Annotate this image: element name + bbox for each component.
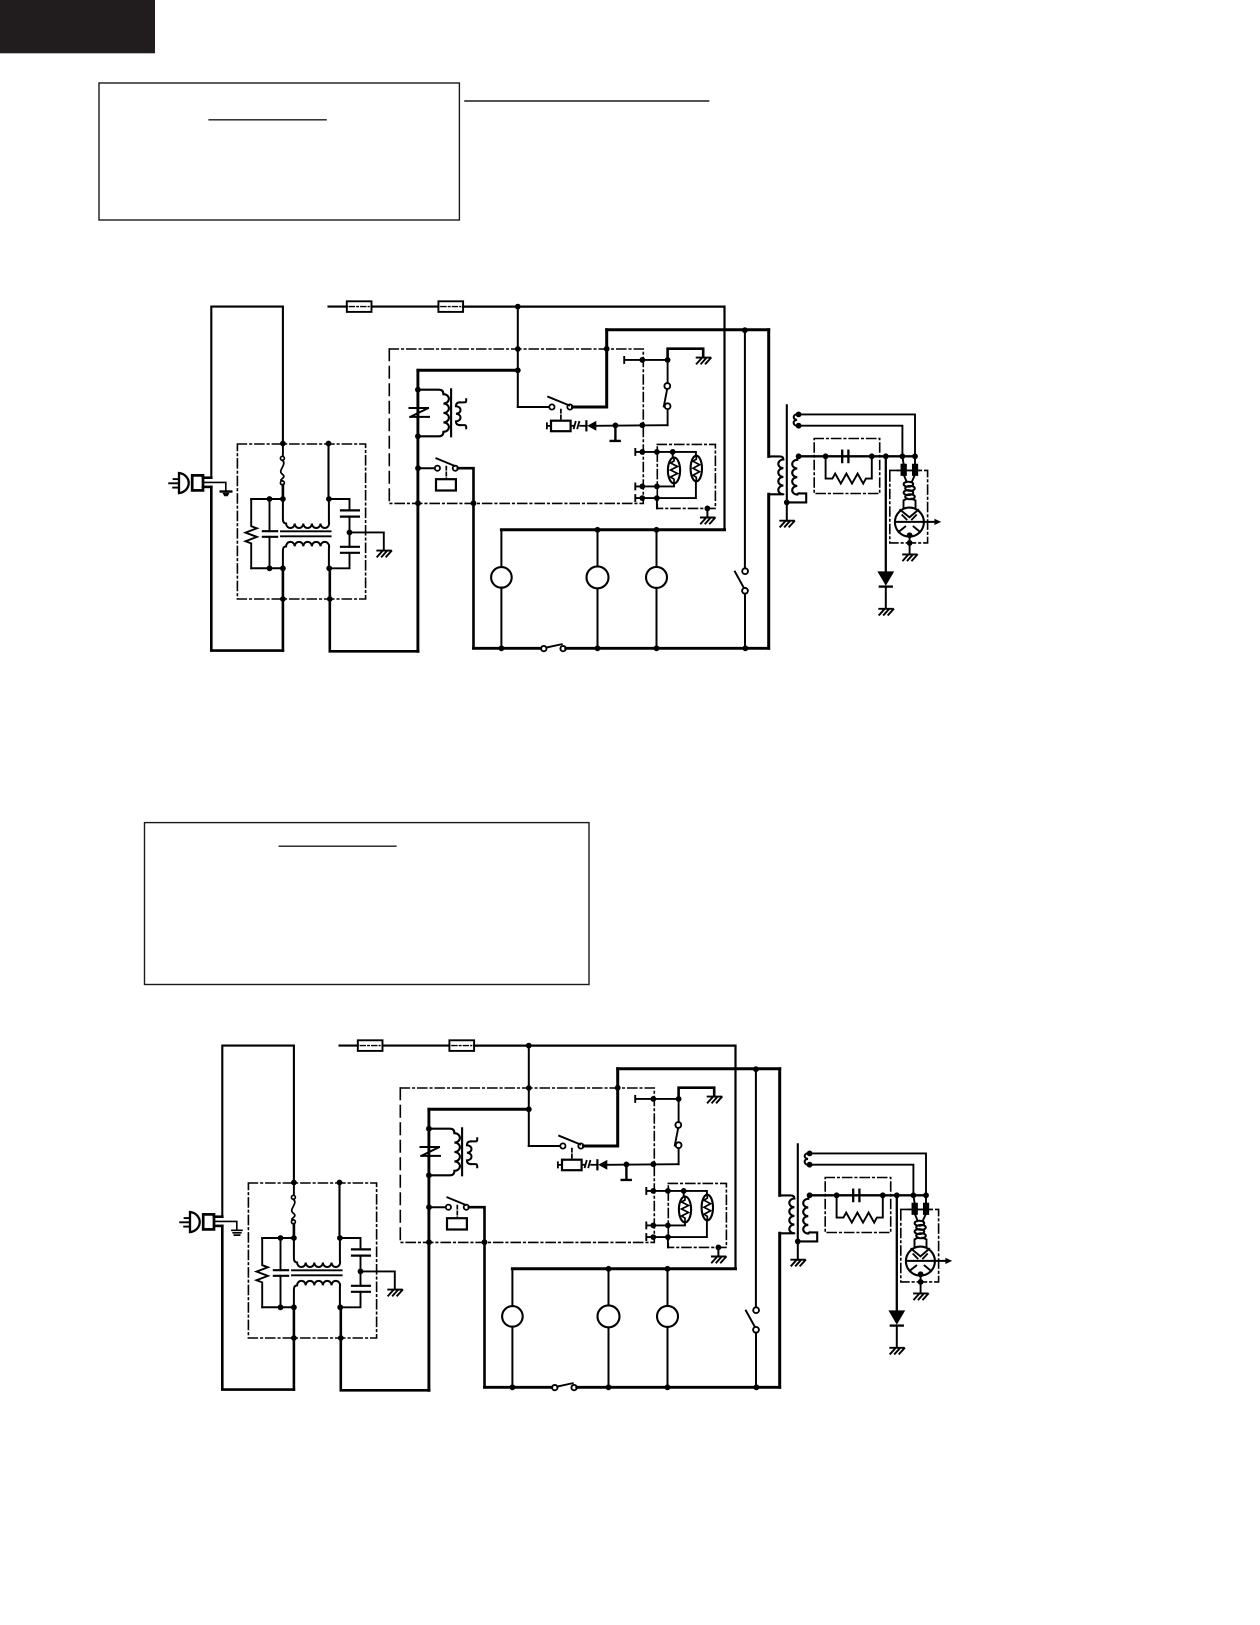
- stub heater row3 to box edge: [656, 498, 658, 508]
- transformer T3 (high voltage) primary winding: [769, 456, 784, 494]
- AC plug P1 body: [179, 473, 189, 493]
- stub heater row3 to box edge: [667, 1237, 669, 1247]
- wire LVT leg to relay RY2 and bottom: [416, 436, 419, 651]
- transformer T2 (low voltage) primary winding: [429, 1129, 460, 1176]
- node dot LVT feed branch: [526, 1106, 532, 1112]
- node dot on control box edge: [515, 346, 521, 352]
- chassis ground at noise filter: [377, 551, 391, 557]
- node dot relay RY2 input: [415, 465, 421, 471]
- HV capacitor C4: [841, 451, 843, 462]
- wire diode to monitor switch leg: [596, 424, 667, 427]
- node dots heater row 2: [639, 484, 645, 490]
- resistor R1 (bleeder, vertical zigzag): [246, 499, 257, 568]
- door sensing switch SW1: [742, 568, 748, 574]
- magnetron MG1 filament terminals (plate pairs): [902, 456, 915, 464]
- wire noise filter output left (neutral) to bottom run: [293, 1307, 296, 1389]
- node dot on controller dashed boundary: [639, 422, 645, 428]
- node dots noise filter bottom edge: [280, 596, 286, 602]
- schematic 2 (lower oven circuit): [180, 1040, 952, 1390]
- wire second riser inside noise filter: [327, 444, 329, 500]
- transformer T2 secondary winding with leads: [467, 1141, 472, 1164]
- node dots noise filter bottom row: [278, 1304, 284, 1310]
- transformer T3 filament winding: [794, 414, 799, 426]
- wire diode to monitor switch leg: [607, 1163, 678, 1166]
- wire HV primary return to bottom run (heavy): [767, 494, 770, 648]
- node dot heater box ground: [716, 1245, 722, 1251]
- wire plug earth lead: [214, 1221, 237, 1230]
- relay RY2 contact: [420, 467, 435, 469]
- wire relay RY2 output down to bottom run: [458, 468, 474, 648]
- wire noise filter output right down to bottom run: [330, 568, 418, 651]
- note box 1 title underline: [209, 119, 326, 121]
- wire filament lead upper: [799, 414, 915, 456]
- transformer T3 secondary winding: [803, 1195, 810, 1233]
- thermal cutout TCO1: [347, 301, 372, 312]
- wire relay RY2 output down to bottom run: [469, 1207, 485, 1387]
- relay RY1 actuator dashed link: [571, 1149, 573, 1160]
- wire HV transformer primary feed (heavy): [767, 330, 770, 457]
- bleeder resistor R2 (parallel): [837, 1195, 883, 1222]
- AC plug P1 body: [190, 1212, 200, 1232]
- node dot varistor top: [415, 387, 421, 393]
- wire plug phase lead: [214, 1215, 222, 1218]
- varistor ZNR1 across LVT primary: [410, 408, 430, 417]
- heater unit boundary box (dash-dot): [668, 1183, 726, 1247]
- wire plug neutral lead: [203, 486, 211, 489]
- node dot heater box ground: [705, 506, 711, 512]
- node dot relay RY2 input: [426, 1204, 432, 1210]
- wire door sensing switch branch: [744, 330, 746, 568]
- monitor switch SW2 (vertical): [675, 1122, 681, 1128]
- inductor T1 bottom winding (choke): [294, 1281, 340, 1307]
- stub heater row1 to H1: [672, 452, 674, 458]
- heater H1 element: [679, 1197, 691, 1223]
- wire LVT primary feed (heavy): [418, 369, 518, 372]
- wire up to monitor switch: [667, 409, 669, 425]
- node dots control box bottom edge crossings: [426, 1239, 432, 1245]
- capacitor C1 (across line, horizontal plates): [263, 530, 277, 532]
- node dots noise filter top row: [278, 1235, 284, 1241]
- wire main feed run to HV transformer (heavy): [618, 1067, 780, 1070]
- thermal cutout TCO2: [438, 301, 463, 312]
- thermal cutout TCO1: [358, 1040, 383, 1051]
- wire HV line from secondary to magnetron: [810, 1194, 926, 1196]
- heater row 1 wire with terminal tick: [635, 449, 672, 455]
- HV diode D2 to chassis: [885, 456, 887, 571]
- wire HV secondary cold end to core and chassis: [787, 493, 806, 502]
- node dots filament winding terminals: [796, 412, 802, 418]
- magnetron output antenna with arrow: [907, 1260, 946, 1262]
- inductor T1 bottom winding (choke): [283, 542, 329, 568]
- wire noise filter output left (neutral) to bottom run: [282, 568, 285, 650]
- varistor ZNR1 across LVT primary: [421, 1147, 441, 1156]
- transformer T2 core: [461, 1128, 463, 1175]
- wire noise filter bottom row: [262, 1306, 294, 1308]
- fan motor M1: [500, 530, 502, 567]
- node dots filament winding terminals: [807, 1151, 813, 1157]
- capacitor C3 (line to ground): [341, 546, 359, 548]
- wire filament lead lower: [799, 426, 903, 457]
- wire bottom run (heavy) with motor taps: [474, 647, 542, 650]
- node dots magnetron cathode return: [907, 532, 913, 538]
- chassis ground at heater box: [717, 1248, 719, 1257]
- wire noise filter top row: [251, 498, 283, 500]
- heater H2 element: [691, 456, 702, 482]
- choke T1 core lines: [292, 1269, 342, 1271]
- noise filter NF1 boundary box (dash-dot): [237, 444, 365, 599]
- heading underline right of note box 1: [465, 100, 709, 102]
- relay RY2 actuator dashed link: [456, 1206, 458, 1219]
- plug cord connector: [203, 1214, 214, 1229]
- wire top run to right corner, down to motor bus: [474, 1046, 735, 1269]
- node dot top run at controller branch: [526, 1043, 532, 1049]
- note box 2 title underline: [279, 845, 396, 847]
- node dot capacitor midpoint: [358, 1269, 364, 1275]
- node dots motor bus: [595, 527, 601, 533]
- transformer T2 core: [450, 389, 452, 436]
- choke T1 core lines: [281, 530, 331, 532]
- node dot door switch branch: [742, 327, 748, 333]
- node dot core ground junction: [784, 500, 790, 506]
- node dots heater row 3: [639, 495, 645, 501]
- wire motor bus (heavy): [501, 528, 724, 531]
- node dots noise filter bottom row: [267, 565, 273, 571]
- wire monitor switch top row: [635, 1096, 678, 1102]
- wire filament lead lower: [810, 1165, 914, 1196]
- wire HV transformer primary feed (heavy): [778, 1069, 781, 1196]
- stub heater row1 to H1: [683, 1191, 685, 1197]
- wire monitor switch to chassis: [679, 1088, 715, 1099]
- transformer T2 (low voltage) primary winding: [418, 390, 449, 437]
- transformer T2 secondary winding with leads: [456, 402, 461, 425]
- diode D1 (flyback, pointing left): [596, 1160, 598, 1169]
- node dot with terminal stub: [624, 1162, 630, 1168]
- node dot capacitor midpoint: [347, 530, 353, 536]
- node dots on HV line: [796, 453, 802, 459]
- HV capacitor unit boundary box (dash-dot): [814, 439, 880, 494]
- wire door switch to bottom run: [744, 594, 746, 649]
- fuse F1 (line fuse inside noise filter): [293, 1185, 295, 1195]
- chassis ground at HV diode: [890, 1348, 904, 1354]
- HV diode D2 to chassis: [896, 1195, 898, 1310]
- node dot varistor bottom: [415, 433, 421, 439]
- plug prong 2 (earth pin): [180, 1221, 190, 1223]
- magnetron internal vanes: [911, 1249, 929, 1256]
- wire top feed run with thermal cutouts: [340, 1045, 358, 1047]
- wire top feed run with thermal cutouts: [329, 306, 347, 308]
- wire LVT primary left leg: [427, 1109, 430, 1175]
- wire plug neutral lead: [214, 1225, 222, 1228]
- wire HV primary return to bottom run (heavy): [778, 1233, 781, 1387]
- wire monitor switch top row: [624, 357, 667, 363]
- node dot on control box top edge: [615, 1085, 621, 1091]
- wire magnetron body to chassis: [920, 1274, 922, 1292]
- heater row 2 wire with terminal tick: [646, 1222, 685, 1228]
- node dots control box bottom edge crossings: [415, 500, 421, 506]
- wire filament lead upper: [810, 1153, 926, 1195]
- node junction dots on noise filter top edge: [291, 1180, 297, 1186]
- magnetron filament coil: [904, 482, 914, 487]
- wire between cutouts: [372, 306, 439, 308]
- wire magnetron body to chassis: [909, 535, 911, 553]
- control unit boundary left edge (long dash): [388, 349, 390, 503]
- plug cord connector: [192, 475, 203, 490]
- node dot LVT feed branch: [515, 367, 521, 373]
- chassis ground at heater box: [706, 509, 708, 518]
- control unit boundary box (dash-dot top/right/bottom): [389, 349, 643, 503]
- wire door sensing switch branch: [755, 1069, 757, 1307]
- HV capacitor C4: [852, 1190, 854, 1201]
- node junction dots on noise filter top edge: [280, 441, 286, 447]
- inductor T1 top winding (choke): [294, 1238, 340, 1267]
- heater row 3 wire with terminal tick: [635, 481, 696, 501]
- page header black block: [0, 0, 155, 53]
- wire LVT primary feed (heavy): [429, 1108, 529, 1111]
- plug prong 3: [184, 1226, 190, 1228]
- wire relay RY1 output to main feed corner (heavy): [573, 330, 607, 407]
- schematic 1 (upper oven circuit): [169, 301, 941, 651]
- wire motor bus (heavy): [512, 1267, 735, 1270]
- control unit boundary left edge (long dash): [399, 1088, 401, 1242]
- oven lamp switch SW3 contacts: [541, 646, 546, 651]
- chassis ground at magnetron: [903, 554, 917, 560]
- wire heater row1 to right heater top: [684, 1191, 707, 1195]
- wire LVT leg to relay RY2 and bottom: [427, 1175, 430, 1390]
- magnetron cathode cup: [915, 1238, 927, 1247]
- wire between cutouts: [383, 1045, 450, 1047]
- magnetron filament funnel: [904, 475, 915, 482]
- wire up to monitor switch: [678, 1148, 680, 1164]
- timer motor M3: [656, 530, 658, 567]
- node dots heater row 1: [639, 449, 645, 455]
- magnetron boundary box (dash-dot): [901, 1209, 939, 1282]
- wire bottom run right segment: [577, 1386, 780, 1389]
- wire plug earth lead: [203, 482, 226, 491]
- chassis ground at monitor switch: [697, 358, 711, 364]
- capacitor C3 (line to ground): [352, 1285, 370, 1287]
- chassis ground at monitor switch: [708, 1097, 722, 1103]
- magnetron internal vanes: [900, 510, 918, 517]
- transformer T3 (high voltage) primary winding: [780, 1195, 795, 1233]
- node dots bottom run: [499, 645, 505, 651]
- wire N bottom-left (plug neutral riser, bottom run into noise filter): [211, 487, 283, 651]
- relay RY1 contact: [560, 1143, 565, 1148]
- transformer T3 core: [786, 405, 788, 502]
- thermal cutout TCO2: [449, 1040, 474, 1051]
- node dots magnetron cathode return: [918, 1271, 924, 1277]
- node dot on control box edge: [526, 1085, 532, 1091]
- oven lamp switch SW3 contacts: [552, 1385, 557, 1390]
- node dot varistor bottom: [426, 1172, 432, 1178]
- wire monitor switch to chassis: [668, 349, 704, 360]
- wire door switch to bottom run: [755, 1333, 757, 1388]
- node dots heater row 1: [650, 1188, 656, 1194]
- inductor T1 top winding (choke): [283, 499, 329, 528]
- relay RY1 coil lead with connector break: [582, 1164, 585, 1166]
- node dots bottom run: [510, 1384, 516, 1390]
- capacitor C2 (line to ground): [329, 499, 350, 510]
- node dot door switch branch: [753, 1066, 759, 1072]
- node dots motor bus: [606, 1266, 612, 1272]
- relay RY2 coil box: [436, 479, 456, 490]
- capacitor C2 (line to ground): [340, 1238, 361, 1249]
- noise filter NF1 boundary box (dash-dot): [248, 1183, 376, 1338]
- chassis ground at HV transformer: [786, 503, 788, 521]
- node dot core ground junction: [795, 1239, 801, 1245]
- transformer T3 core: [797, 1144, 799, 1241]
- magnetron anode circle: [895, 508, 924, 537]
- relay RY1 coil box: [551, 421, 571, 432]
- wire relay RY1 feed from controller: [529, 1145, 560, 1147]
- relay RY1 coil left terminal tick: [547, 423, 551, 428]
- wire relay RY1 feed from controller: [518, 406, 549, 408]
- heater H2 element: [702, 1195, 713, 1221]
- note box 1: [99, 83, 459, 220]
- wire controller feed drop: [528, 1046, 530, 1146]
- heater row 1 wire with terminal tick: [646, 1188, 683, 1194]
- relay RY2 coil box: [447, 1218, 467, 1229]
- wire main feed run to HV transformer (heavy): [607, 328, 769, 331]
- wire bottom run (heavy) with motor taps: [485, 1386, 553, 1389]
- heater row 3 wire with terminal tick: [646, 1220, 707, 1240]
- note box 2: [145, 823, 590, 985]
- wire N bottom-left (plug neutral riser, bottom run into noise filter): [222, 1226, 294, 1390]
- wire noise filter top row: [262, 1237, 294, 1239]
- wire LVT primary left leg: [416, 370, 419, 436]
- control unit boundary box (dash-dot top/right/bottom): [400, 1088, 654, 1242]
- HV capacitor unit boundary box (dash-dot): [825, 1178, 891, 1233]
- heater H1 element: [668, 458, 680, 484]
- earth ground symbol at plug (filled tack): [221, 490, 232, 492]
- wire relay RY1 output to main feed corner (heavy): [584, 1069, 618, 1146]
- plug prong 1: [185, 1217, 190, 1219]
- diode D1 (flyback, pointing left): [585, 421, 587, 430]
- wire capacitor midpoint to chassis: [361, 1271, 395, 1288]
- transformer T3 secondary winding: [792, 456, 799, 494]
- heater row 2 wire with terminal tick: [635, 483, 674, 489]
- wire L1 top-left loop (plug phase riser and top run): [222, 1046, 294, 1217]
- monitor switch SW2 (vertical): [664, 383, 670, 389]
- relay RY1 actuator dashed link: [560, 410, 562, 421]
- chassis ground at noise filter: [388, 1290, 402, 1296]
- node dots noise filter top row: [267, 496, 273, 502]
- magnetron filament coil: [915, 1221, 925, 1226]
- heater unit boundary box (dash-dot): [657, 444, 715, 508]
- plug prong 3: [173, 487, 179, 489]
- wire L1 top-left loop (plug phase riser and top run): [211, 307, 283, 478]
- relay RY1 coil lead with connector break: [571, 425, 574, 427]
- magnetron boundary box (dash-dot): [890, 470, 928, 543]
- timer motor M3: [667, 1269, 669, 1306]
- capacitor C1 (across line, horizontal plates): [274, 1269, 288, 1271]
- relay RY1 contact: [549, 404, 554, 409]
- relay RY2 actuator dashed link: [445, 467, 447, 480]
- earth ground symbol at plug (3-bar earth): [232, 1230, 242, 1235]
- relay RY1 coil box: [562, 1160, 582, 1171]
- bleeder resistor R2 (parallel): [826, 456, 872, 483]
- node dots monitor row: [650, 1096, 656, 1102]
- chassis ground at HV diode: [879, 609, 893, 615]
- turntable motor M2: [608, 1269, 610, 1306]
- magnetron cathode cup: [904, 499, 916, 508]
- wire plug phase lead: [203, 476, 211, 479]
- node dots on HV line: [807, 1192, 813, 1198]
- wire heater row1 to right heater top: [673, 452, 696, 456]
- magnetron filament funnel: [915, 1214, 926, 1221]
- transformer T3 filament winding: [805, 1153, 810, 1165]
- wire HV secondary cold end to core and chassis: [798, 1232, 817, 1241]
- fuse F1 (line fuse inside noise filter): [282, 446, 284, 456]
- node dots noise filter bottom edge: [291, 1335, 297, 1341]
- resistor R1 (bleeder, vertical zigzag): [257, 1238, 268, 1307]
- node dots heater row 3: [650, 1234, 656, 1240]
- fan motor M1: [511, 1269, 513, 1306]
- node dot varistor top: [426, 1126, 432, 1132]
- relay RY1 coil left terminal tick: [558, 1162, 562, 1167]
- node dot with terminal stub: [613, 423, 619, 429]
- plug prong 1: [174, 478, 179, 480]
- plug prong 2 (earth pin): [169, 482, 179, 484]
- node dot on control box top edge: [604, 346, 610, 352]
- node dots heater row 2: [650, 1223, 656, 1229]
- node dot top run at controller branch: [515, 304, 521, 310]
- wire capacitor midpoint to chassis: [350, 532, 384, 549]
- magnetron MG1 filament terminals (plate pairs): [913, 1195, 926, 1203]
- wire HV line from secondary to magnetron: [799, 455, 915, 457]
- wire bottom run right segment: [566, 647, 769, 650]
- magnetron anode circle: [906, 1247, 935, 1276]
- node dot on controller dashed boundary: [650, 1161, 656, 1167]
- chassis ground at magnetron: [914, 1293, 928, 1299]
- magnetron output antenna with arrow: [896, 521, 935, 523]
- door sensing switch SW1: [753, 1307, 759, 1313]
- wire top run to right corner, down to motor bus: [463, 307, 724, 530]
- node dots monitor row: [639, 357, 645, 363]
- wire controller feed drop: [517, 307, 519, 407]
- wire noise filter output right down to bottom run: [341, 1307, 429, 1390]
- wire noise filter bottom row: [251, 567, 283, 569]
- wire second riser inside noise filter: [338, 1183, 340, 1239]
- chassis ground at HV transformer: [797, 1242, 799, 1260]
- relay RY2 contact: [431, 1206, 446, 1208]
- turntable motor M2: [597, 530, 599, 567]
